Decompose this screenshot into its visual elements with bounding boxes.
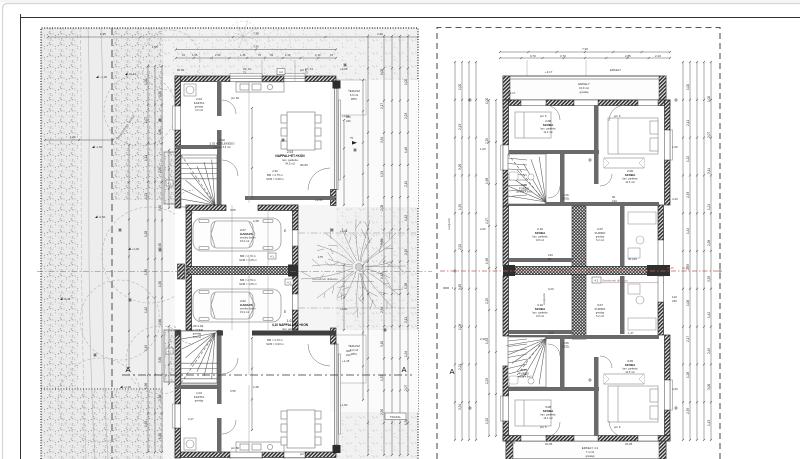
svg-text:1,51: 1,51 (380, 171, 384, 177)
svg-text:3,26: 3,26 (458, 164, 462, 170)
svg-text:1,50: 1,50 (158, 281, 162, 287)
svg-text:3,6 m2: 3,6 m2 (195, 108, 203, 112)
svg-text:1,21: 1,21 (144, 193, 148, 199)
balcony top (503, 76, 666, 100)
svg-text:1,00: 1,00 (144, 79, 148, 85)
apron axis dashdot (298, 233, 416, 308)
svg-text:2,48: 2,48 (253, 385, 259, 389)
elevation markers (60, 72, 139, 389)
svg-text:ELOTER: ELOTER (191, 328, 204, 332)
svg-text:12,2 m2: 12,2 m2 (543, 130, 553, 134)
svg-text:+0,45: +0,45 (315, 198, 323, 202)
svg-text:15: 15 (330, 53, 334, 57)
svg-text:WPC: WPC (351, 97, 357, 101)
partitions upper top unit (509, 105, 659, 206)
svg-text:12,5 m2: 12,5 m2 (625, 180, 635, 184)
svg-text:lam. parketta: lam. parketta (533, 311, 549, 315)
svg-text:1,39: 1,39 (458, 204, 462, 210)
svg-text:6,0 m2: 6,0 m2 (350, 93, 359, 97)
svg-text:greslap: greslap (596, 311, 605, 315)
svg-text:1,58: 1,58 (485, 178, 489, 184)
section A marks right (443, 288, 455, 376)
partitions mid rooms B (509, 276, 625, 334)
svg-text:pm 81: pm 81 (231, 96, 239, 100)
svg-text:greslap: greslap (193, 332, 202, 336)
svg-text:1,00: 1,00 (70, 135, 76, 139)
svg-text:1,50: 1,50 (158, 129, 162, 135)
svg-text:2,15: 2,15 (404, 249, 408, 255)
svg-text:2,16: 2,16 (285, 53, 291, 57)
svg-text:49 | 10: 49 | 10 (243, 67, 251, 71)
svg-text:ERKELY: ERKELY (610, 68, 621, 72)
dim chains right side (367, 35, 369, 456)
room label 1.01 NAPPALI B (272, 319, 309, 335)
svg-text:2,48: 2,48 (253, 219, 259, 223)
svg-text:1,63: 1,63 (144, 421, 148, 427)
room label 2.04 KAZAN (194, 97, 205, 112)
dim chain beside terrace (362, 79, 364, 206)
svg-text:2,07: 2,07 (707, 132, 711, 138)
svg-text:2,27: 2,27 (188, 417, 194, 421)
door arcs upper unit (545, 105, 625, 198)
svg-text:2,52: 2,52 (458, 244, 462, 250)
svg-text:2,11: 2,11 (404, 317, 408, 323)
entry porch unit B (164, 330, 175, 382)
fence dotted line bottom-left (41, 388, 163, 390)
svg-text:KAZTIA: KAZTIA (194, 101, 205, 105)
svg-text:75: 75 (350, 136, 353, 140)
svg-text:4.2: 4.2 (168, 350, 172, 354)
svg-text:5,6 m2: 5,6 m2 (193, 335, 201, 339)
svg-text:SZOBA: SZOBA (625, 173, 636, 177)
svg-text:34,8 m2: 34,8 m2 (285, 331, 295, 335)
svg-text:30x25: 30x25 (300, 163, 308, 167)
ground floor building white footprint (175, 76, 336, 459)
door arcs unit B (175, 326, 330, 434)
door arcs lower unit (545, 344, 625, 437)
label 2.09 SZOBA (623, 169, 639, 184)
svg-text:9,8 m2: 9,8 m2 (536, 238, 544, 242)
svg-text:2,17: 2,17 (380, 103, 384, 109)
svg-text:7,90: 7,90 (253, 45, 259, 49)
kitchen counter unit B (236, 442, 284, 452)
svg-text:2,30: 2,30 (215, 53, 221, 57)
ceiling height note unit A (266, 169, 284, 181)
window sills right building (501, 98, 673, 444)
dim chain mid-left x129 (128, 144, 130, 369)
svg-text:2,11: 2,11 (686, 120, 690, 126)
wc fixtures lower (509, 376, 534, 384)
window sills left building (173, 74, 341, 459)
svg-text:FURDO: FURDO (595, 231, 606, 235)
fixtures mid bath B (628, 284, 656, 330)
svg-text:1,95: 1,95 (192, 53, 198, 57)
dining table unit A (281, 112, 321, 150)
dim chain top outer (47, 36, 419, 38)
svg-text:3,25: 3,25 (380, 239, 384, 245)
svg-text:TERASZ: TERASZ (348, 89, 360, 93)
svg-text:2,28: 2,28 (707, 240, 711, 246)
svg-text:KAZTIA: KAZTIA (194, 395, 205, 399)
front walk strip (163, 76, 176, 459)
svg-text:3,50: 3,50 (158, 205, 162, 211)
dim chain top second (175, 48, 337, 50)
terrain stipple mid band (113, 28, 163, 200)
stair unit A (180, 155, 217, 207)
label 3.05 FURDO B (516, 368, 532, 379)
svg-text:3,70: 3,70 (560, 54, 566, 58)
svg-text:-0,43: -0,43 (64, 297, 71, 301)
right panel dashed boundary (437, 28, 720, 459)
svg-text:1,00: 1,00 (380, 69, 384, 75)
svg-text:4,40: 4,40 (672, 197, 678, 201)
wall upper top (503, 100, 670, 106)
garage door E marks (284, 229, 287, 314)
svg-text:1,49: 1,49 (144, 345, 148, 351)
bed right room lower (608, 386, 658, 422)
svg-text:1,22: 1,22 (686, 156, 690, 162)
partitions lower unit (509, 335, 659, 436)
fixtures mid bath (628, 212, 656, 258)
svg-text:2,00: 2,00 (480, 227, 486, 231)
svg-text:pm 6: pm 6 (614, 114, 621, 118)
svg-text:1,34: 1,34 (404, 351, 408, 357)
svg-text:1,44: 1,44 (686, 228, 690, 234)
svg-text:+1,24: +1,24 (340, 229, 348, 233)
svg-text:2,25: 2,25 (485, 298, 489, 304)
kitchen counter unit A (236, 82, 284, 92)
svg-text:1,52: 1,52 (485, 418, 489, 424)
svg-text:1,42: 1,42 (404, 215, 408, 221)
boiler fixture unit A (184, 84, 196, 96)
tree canopy dashed arcs (58, 30, 200, 442)
svg-text:2,10: 2,10 (655, 54, 661, 58)
wc fixtures upper (509, 172, 534, 180)
svg-text:1,95: 1,95 (100, 32, 106, 36)
svg-text:uvegkorlat: uvegkorlat (542, 293, 546, 305)
svg-text:WPC: WPC (351, 352, 357, 356)
dilatation label left (312, 277, 374, 281)
svg-text:2,23: 2,23 (404, 113, 408, 119)
svg-text:1,33: 1,33 (380, 375, 384, 381)
svg-text:TRAFAL: TRAFAL (390, 415, 402, 419)
terrain contour lines (80, 28, 108, 459)
pm labels lower (540, 425, 621, 429)
car in garage A (193, 218, 281, 251)
svg-text:3,50: 3,50 (158, 357, 162, 363)
label 3.08 SZOBA (541, 405, 557, 420)
svg-text:2,30: 2,30 (480, 337, 486, 341)
svg-text:+3,17: +3,17 (508, 441, 516, 445)
svg-text:ERKELY 4.2: ERKELY 4.2 (582, 446, 599, 450)
svg-text:34,5 m2: 34,5 m2 (285, 162, 295, 166)
svg-text:1,00: 1,00 (404, 79, 408, 85)
svg-text:KOZL: KOZL (562, 344, 570, 348)
svg-text:SZM = 3,05 m: SZM = 3,05 m (239, 282, 257, 286)
window size labels right wall (346, 115, 357, 357)
party wall upper floor (503, 265, 670, 276)
svg-text:0,50: 0,50 (158, 395, 162, 401)
boundary dashed line (111, 28, 113, 459)
svg-text:1,28: 1,28 (686, 372, 690, 378)
svg-text:+1,45: +1,45 (342, 359, 350, 363)
interior axis lines right building (527, 60, 610, 435)
dilatation label right (602, 279, 664, 283)
svg-text:greslap 4,9m2: greslap 4,9m2 (516, 191, 532, 194)
box label 4.1 lower (285, 279, 293, 285)
dilatation line left (37, 271, 432, 273)
terrace label top (348, 89, 360, 101)
site border dotted (41, 28, 418, 459)
svg-text:3,16: 3,16 (380, 341, 384, 347)
svg-text:1,13: 1,13 (707, 420, 711, 426)
svg-text:+1,00: +1,00 (124, 385, 132, 389)
entry porch unit A (164, 152, 175, 204)
svg-text:4,40: 4,40 (672, 387, 678, 391)
svg-text:lam. parketta: lam. parketta (623, 367, 639, 371)
svg-text:pm 8: pm 8 (300, 68, 307, 72)
small tree top (228, 20, 290, 51)
svg-text:pm 80: pm 80 (231, 446, 239, 450)
svg-text:SZOBA: SZOBA (535, 231, 546, 235)
svg-text:2.02 KOZLEKEDO: 2.02 KOZLEKEDO (209, 142, 235, 146)
svg-text:2,21: 2,21 (458, 364, 462, 370)
svg-text:1,14: 1,14 (144, 155, 148, 161)
dining table unit B (281, 410, 321, 448)
wall lower left (503, 276, 509, 441)
wall unit A left (175, 76, 181, 208)
dim chain right top2 (499, 57, 671, 59)
stair upper unit (506, 154, 546, 204)
svg-text:1,42: 1,42 (144, 307, 148, 313)
svg-text:1,47: 1,47 (628, 331, 634, 335)
svg-text:1,07: 1,07 (144, 117, 148, 123)
svg-text:2,19: 2,19 (404, 181, 408, 187)
svg-text:3,35: 3,35 (707, 276, 711, 282)
svg-text:-1,50: -1,50 (96, 145, 103, 149)
svg-text:2,50: 2,50 (158, 167, 162, 173)
car in garage B (193, 289, 281, 322)
svg-text:3,55: 3,55 (230, 208, 236, 212)
wall unit B bottom outer (175, 452, 336, 458)
label 3.10 SZOBA (533, 303, 549, 318)
svg-text:+0,02: +0,02 (342, 114, 350, 118)
ceiling note unit B (266, 338, 284, 346)
svg-text:90 210: 90 210 (628, 257, 637, 261)
svg-text:29: 29 (270, 53, 274, 57)
garage height notes (239, 254, 257, 286)
svg-text:SZOBA: SZOBA (543, 123, 554, 127)
svg-text:5,2 m2: 5,2 m2 (596, 314, 604, 318)
svg-text:1,56: 1,56 (144, 383, 148, 389)
svg-text:1,42: 1,42 (707, 312, 711, 318)
box 4.2 above wall (277, 69, 285, 75)
svg-text:175: 175 (318, 255, 323, 259)
svg-text:210: 210 (548, 253, 553, 257)
label 2.06 KOZL (562, 193, 570, 200)
svg-text:15,2 m2: 15,2 m2 (240, 310, 250, 314)
svg-text:SZOBA: SZOBA (543, 409, 554, 413)
svg-text:A: A (449, 367, 454, 376)
svg-text:1,95: 1,95 (152, 45, 158, 49)
window dim labels above wall (243, 67, 313, 75)
label 2.10 SZOBA (533, 227, 549, 242)
svg-text:1,00: 1,00 (458, 84, 462, 90)
svg-text:5,2 m2: 5,2 m2 (596, 238, 604, 242)
svg-text:1,00: 1,00 (480, 147, 486, 151)
wall lower bottom (503, 436, 670, 442)
svg-text:1,28: 1,28 (144, 231, 148, 237)
svg-text:1,46: 1,46 (240, 53, 246, 57)
wall unit A right (331, 81, 341, 206)
svg-text:pm 5: pm 5 (540, 114, 547, 118)
label 2.07 FURDO (595, 227, 606, 242)
svg-text:90 90: 90 90 (177, 68, 185, 72)
wall unit B right (331, 328, 341, 453)
partitions mid rooms (509, 206, 625, 266)
svg-text:SZM = 3,05 m: SZM = 3,05 m (239, 258, 257, 262)
svg-text:lam. parketta: lam. parketta (282, 158, 298, 162)
svg-text:greslap: greslap (596, 235, 605, 239)
svg-text:1,35: 1,35 (144, 269, 148, 275)
svg-text:3,34: 3,34 (380, 137, 384, 143)
garage label 3.02 (240, 299, 256, 314)
wardrobe upper (604, 158, 644, 168)
svg-text:greslap: greslap (580, 90, 589, 94)
svg-text:KOZL: KOZL (562, 196, 570, 200)
svg-text:7,4 m2: 7,4 m2 (586, 450, 595, 454)
svg-text:NAPPALI+ET.+KON: NAPPALI+ET.+KON (275, 154, 305, 158)
terrace label bottom (348, 344, 360, 356)
svg-text:SZOBA: SZOBA (535, 307, 546, 311)
svg-text:12,5 m2: 12,5 m2 (625, 370, 635, 374)
svg-text:1,00: 1,00 (686, 84, 690, 90)
svg-text:2,17: 2,17 (686, 336, 690, 342)
svg-text:4.1: 4.1 (595, 279, 599, 283)
svg-text:76: 76 (258, 53, 262, 57)
garage walls (186, 205, 298, 330)
svg-text:1,38: 1,38 (404, 283, 408, 289)
svg-text:pm 170: pm 170 (300, 452, 310, 456)
pm labels upper (540, 114, 621, 203)
cross markers right (453, 98, 722, 410)
svg-text:1,06: 1,06 (686, 300, 690, 306)
svg-text:3,55: 3,55 (230, 389, 236, 393)
svg-text:greslap: greslap (586, 454, 595, 458)
wall unit B left (175, 330, 181, 458)
svg-text:4.2: 4.2 (168, 182, 172, 186)
level labels right panel (480, 68, 678, 446)
svg-text:pm 6: pm 6 (614, 425, 621, 429)
stair unit B (180, 331, 217, 384)
label 3.07 FURDO (595, 303, 606, 318)
svg-text:13,1 m2: 13,1 m2 (543, 416, 553, 420)
svg-text:1,56: 1,56 (485, 258, 489, 264)
wardrobe lower (604, 374, 644, 384)
svg-text:2,59: 2,59 (380, 307, 384, 313)
left dim labels (144, 79, 162, 439)
svg-text:90: 90 (548, 257, 552, 261)
svg-text:+1,50: +1,50 (340, 403, 348, 407)
svg-text:greslap: greslap (195, 105, 204, 109)
red chain labels (667, 266, 689, 270)
svg-text:1,42: 1,42 (380, 273, 384, 279)
svg-text:2,07: 2,07 (404, 385, 408, 391)
svg-text:15: 15 (182, 53, 186, 57)
svg-text:A: A (401, 365, 406, 374)
svg-text:lam. parketta: lam. parketta (282, 327, 298, 331)
svg-text:lam. parketta: lam. parketta (533, 235, 549, 239)
svg-text:2,39: 2,39 (686, 408, 690, 414)
svg-text:A: A (125, 365, 130, 374)
svg-text:TERASZ: TERASZ (348, 344, 360, 348)
svg-text:GARAZS: GARAZS (240, 303, 253, 307)
room label 1.02 ELOTER (191, 324, 204, 339)
dim chains right-right side (682, 61, 684, 441)
svg-text:3,34: 3,34 (458, 404, 462, 410)
svg-text:4.1: 4.1 (287, 281, 291, 285)
plumbing shaft wall (572, 206, 586, 339)
svg-text:2,27: 2,27 (188, 211, 194, 215)
svg-text:7,90: 7,90 (582, 47, 588, 51)
dim chain inner left (168, 149, 170, 209)
svg-text:+0,60: +0,60 (340, 307, 348, 311)
svg-text:3,10: 3,10 (548, 331, 554, 335)
level labels near building (152, 45, 350, 456)
svg-text:2,10: 2,10 (315, 53, 321, 57)
svg-text:1,00: 1,00 (707, 96, 711, 102)
svg-text:+0,43: +0,43 (129, 72, 137, 76)
svg-text:2,13: 2,13 (458, 124, 462, 130)
svg-text:semleo beton: semleo beton (240, 236, 256, 240)
svg-text:pm 5: pm 5 (540, 425, 547, 429)
dim chains right-left side (454, 61, 456, 441)
wall upper right (658, 100, 670, 266)
svg-text:230: 230 (672, 299, 677, 303)
label 2.05 FURDO (516, 183, 532, 194)
svg-text:greslap: greslap (195, 399, 204, 403)
partition walls unit B (176, 330, 222, 453)
terrain light band with contours (78, 28, 113, 459)
terrain stipple bottom (41, 390, 163, 459)
small cross markers (93, 63, 387, 357)
terrain stipple west band (41, 28, 78, 459)
svg-text:46,25: 46,25 (667, 266, 674, 270)
wall upper left (503, 100, 509, 266)
svg-text:0,70: 0,70 (530, 54, 536, 58)
svg-text:2,40: 2,40 (377, 32, 383, 36)
svg-text:9,8 m2: 9,8 m2 (536, 314, 544, 318)
stair lower unit (506, 337, 546, 387)
svg-text:ERKELY: ERKELY (578, 82, 590, 86)
section line A left (122, 365, 412, 375)
balcony bottom (506, 441, 666, 459)
svg-text:10,9 m2: 10,9 m2 (579, 86, 589, 90)
svg-text:9,0 m2: 9,0 m2 (350, 348, 359, 352)
svg-text:lam. parketta: lam. parketta (541, 127, 557, 131)
svg-text:1,46: 1,46 (404, 147, 408, 153)
wall unit A top (175, 76, 336, 82)
svg-text:3,06: 3,06 (707, 384, 711, 390)
svg-text:2,27: 2,27 (485, 218, 489, 224)
svg-text:semleo beton: semleo beton (240, 307, 256, 311)
svg-text:1,00: 1,00 (485, 98, 489, 104)
svg-text:lam. parketta: lam. parketta (541, 413, 557, 417)
wall lower right (658, 276, 670, 441)
box label 4.1 upper (268, 253, 276, 259)
balcony top label (578, 82, 590, 94)
svg-text:20,05: 20,05 (625, 442, 633, 446)
